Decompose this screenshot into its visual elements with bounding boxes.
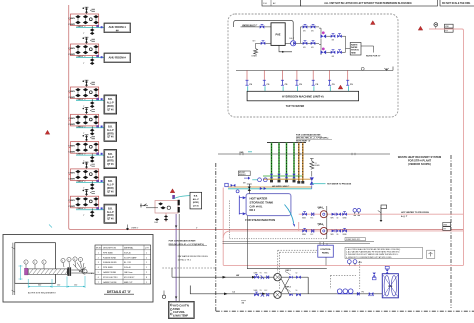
svg-text:2: 2 — [146, 272, 147, 274]
svg-text:GASKET 80NB: GASKET 80NB — [103, 271, 117, 274]
junction dot on header — [126, 228, 128, 230]
main red CHW header — [69, 5, 464, 229]
manifold orange risers — [299, 143, 303, 183]
PHE unit in cloud — [271, 23, 285, 46]
svg-text:PUMP SKID DTL: PUMP SKID DTL — [346, 239, 360, 241]
svg-text:MATERIAL: MATERIAL — [124, 247, 133, 250]
svg-text:DETAILS AT 'X': DETAILS AT 'X' — [107, 290, 131, 294]
svg-text:5: 5 — [98, 272, 99, 274]
condensate line across — [218, 153, 390, 155]
small pumps left of manifold — [244, 177, 267, 182]
manifold isolation valves — [270, 174, 273, 179]
small tag above notes — [345, 238, 365, 242]
top note box A — [262, 0, 301, 6]
svg-text:HOT WATER TO PROCESS: HOT WATER TO PROCESS — [401, 211, 429, 214]
drain leg — [255, 43, 257, 48]
battery limit bottom — [216, 310, 474, 312]
svg-text:WATER INLET 2": WATER INLET 2" — [242, 24, 257, 27]
collect line to tank box — [342, 36, 350, 52]
dm inlet dashed — [162, 267, 216, 269]
svg-text:3: 3 — [98, 262, 99, 264]
svg-text:HW: HW — [236, 275, 239, 277]
svg-text:PIPE 80NB: PIPE 80NB — [103, 267, 113, 269]
flexible hose — [285, 205, 294, 224]
after valves lower — [331, 50, 336, 54]
balloon symbol top right — [434, 23, 438, 29]
svg-text:STORAGE TANK: STORAGE TANK — [250, 201, 275, 205]
svg-text:6: 6 — [74, 259, 75, 261]
tank inlet arrows blue — [236, 190, 246, 215]
svg-text:HW RET: HW RET — [239, 172, 245, 174]
svg-text:CONTROL: CONTROL — [320, 249, 331, 251]
check valves after pumps — [289, 276, 301, 297]
svg-text:HWP-2: HWP-2 — [318, 224, 323, 226]
AHU box 2 — [101, 53, 131, 63]
pink riser at boundary — [222, 188, 224, 239]
signal dashed to dosing pump — [331, 261, 360, 289]
svg-text:80: 80 — [337, 234, 339, 236]
svg-text:NRV: NRV — [331, 217, 334, 219]
svg-text:WASTE HEAT RECOVERY SYSTEM: WASTE HEAT RECOVERY SYSTEM — [398, 155, 441, 159]
svg-text:300: 300 — [38, 284, 41, 286]
phe top valve — [385, 266, 389, 273]
svg-text:5: 5 — [68, 259, 69, 261]
svg-text:HW SUPPLY HDR 2": HW SUPPLY HDR 2" — [272, 186, 289, 188]
svg-text:FLX: FLX — [265, 273, 268, 275]
svg-text:80NB: 80NB — [343, 234, 347, 236]
svg-text:CHWR 6": CHWR 6" — [131, 227, 139, 229]
pink header top right — [429, 29, 464, 265]
hot water pump 2 — [302, 224, 347, 235]
svg-text:DRAIN: DRAIN — [252, 54, 258, 57]
svg-text:2. ALL VALVES FLANGES AND FITT: 2. ALL VALVES FLANGES AND FITTINGS RATED… — [346, 251, 400, 254]
svg-text:7: 7 — [98, 282, 99, 284]
svg-text:TANK: TANK — [351, 51, 357, 54]
continuation note above manifold — [296, 134, 332, 143]
branch rows — [296, 27, 319, 43]
wall box in details — [12, 243, 56, 295]
svg-text:FLANGE 80NB: FLANGE 80NB — [103, 256, 117, 259]
svg-text:8: 8 — [146, 277, 147, 279]
svg-text:80: 80 — [337, 217, 339, 219]
control valve upper — [319, 28, 331, 44]
svg-text:PHE: PHE — [388, 286, 393, 288]
svg-text:FOR STEAM INJECTION: FOR STEAM INJECTION — [245, 218, 275, 222]
pipe assembly — [25, 263, 100, 276]
svg-text:1: 1 — [146, 282, 147, 284]
svg-text:2: 2 — [34, 262, 35, 264]
svg-text:CAF 3mm: CAF 3mm — [124, 271, 133, 274]
svg-text:HW: HW — [444, 224, 447, 226]
svg-text:DM WATER FROM PROCESS: DM WATER FROM PROCESS — [178, 255, 209, 258]
svg-text:YS: YS — [260, 273, 262, 275]
drain spring — [310, 159, 314, 170]
pressure gauges row1 — [353, 209, 361, 216]
circle on collect line — [361, 67, 364, 70]
svg-text:6: 6 — [98, 277, 99, 279]
svg-text:DMP-1: DMP-1 — [286, 270, 291, 272]
svg-text:50: 50 — [296, 273, 298, 275]
balloon callouts — [24, 257, 83, 269]
AHU box 3 — [101, 95, 117, 114]
PHE heat exchanger — [382, 274, 398, 298]
hyd caution tank note box — [169, 301, 195, 318]
svg-text:3. INSULATION FOR HOT WATER LI: 3. INSULATION FOR HOT WATER LINE 50MM TH… — [346, 253, 399, 256]
svg-text:FLX: FLX — [265, 290, 268, 292]
AHU box 5 — [101, 150, 117, 169]
valve station G3 — [68, 80, 104, 108]
warning triangle mid — [170, 189, 175, 193]
y strainer on line — [385, 68, 389, 70]
cyan dimensions — [19, 225, 86, 289]
top note box C — [440, 0, 474, 6]
svg-text:FLANGE BLIND: FLANGE BLIND — [103, 261, 117, 264]
svg-text:FOR STR-# PLANT: FOR STR-# PLANT — [408, 159, 431, 163]
loop return under PHE — [279, 45, 292, 52]
svg-text:(STM) & TK 1: (STM) & TK 1 — [178, 260, 192, 262]
svg-text:4: 4 — [98, 267, 99, 269]
dm water line row1 — [172, 276, 308, 278]
warning triangle near row — [338, 85, 343, 89]
svg-text:QT #6: QT #6 — [193, 206, 200, 208]
continuation note text — [169, 240, 207, 246]
instrument row under loop — [246, 70, 354, 91]
row2 valve set — [254, 292, 269, 296]
level signal dashed — [229, 201, 326, 239]
svg-text:80NB: 80NB — [302, 217, 306, 219]
hw supply header green — [263, 175, 302, 177]
valve before phe — [369, 292, 374, 295]
svg-text:4: 4 — [62, 260, 63, 262]
manifold bottom caps — [270, 180, 304, 184]
svg-text:CHL-P: CHL-P — [289, 38, 295, 40]
AHU box G8 — [190, 192, 202, 209]
AHU box 7 — [101, 204, 117, 223]
svg-text:80NB: 80NB — [302, 234, 306, 236]
row1 valve set — [254, 275, 269, 279]
hydrogen machine box — [247, 91, 359, 108]
svg-text:PHE: PHE — [276, 34, 281, 37]
valve station G2 — [68, 37, 104, 65]
flow sensor flag — [378, 205, 387, 222]
valve station G7 — [68, 189, 104, 217]
svg-text:7: 7 — [80, 259, 81, 261]
svg-text:2: 2 — [146, 257, 147, 259]
svg-text:(VENDOR SCOPE): (VENDOR SCOPE) — [408, 162, 431, 166]
battery limit vertical right — [450, 155, 452, 308]
row valves top — [303, 24, 308, 28]
svg-text:1: 1 — [98, 252, 99, 254]
svg-text:TAP TO WATER: TAP TO WATER — [286, 105, 305, 108]
svg-text:AHU ROOM-#: AHU ROOM-# — [109, 55, 127, 59]
pink drop to bottom loop — [223, 231, 463, 266]
warning triangle left margin — [45, 130, 50, 134]
pump skid supply line pink row1 — [299, 213, 464, 215]
svg-text:M1 #8 BOLT: M1 #8 BOLT — [124, 277, 135, 279]
svg-text:1: 1 — [146, 262, 147, 264]
svg-text:ALL-P: ALL-P — [193, 198, 200, 201]
svg-text:50: 50 — [296, 290, 298, 292]
purple hydrant pipes down — [175, 214, 177, 301]
hot water to process teal — [312, 183, 326, 185]
valve station G6 — [68, 162, 104, 190]
inlet valve — [260, 24, 265, 28]
lower orange stub — [228, 186, 312, 188]
label box left of manifold — [238, 171, 250, 176]
svg-text:STUD ELECTRO: STUD ELECTRO — [103, 277, 118, 279]
svg-text:WASTE: WASTE — [351, 44, 358, 47]
svg-text:HYDROGEN MACHINE (UNIT-#): HYDROGEN MACHINE (UNIT-#) — [282, 95, 324, 99]
svg-text:WATER: WATER — [351, 46, 358, 49]
revision cloud boundary — [228, 14, 398, 117]
svg-text:NOTE FOR 'X': NOTE FOR 'X' — [366, 56, 381, 58]
hot water pump 1 — [302, 207, 347, 218]
tag boxes right pink — [443, 222, 451, 230]
svg-text:B.B.: B.B. — [194, 196, 199, 198]
AHU box 1 — [101, 23, 131, 33]
tag boxes top right — [445, 24, 454, 32]
manifold header cap — [267, 142, 306, 144]
svg-text:NRV: NRV — [331, 234, 334, 236]
svg-text:SR.NO: SR.NO — [96, 248, 103, 250]
control panel — [318, 245, 334, 257]
svg-text:DMP-2: DMP-2 — [286, 287, 291, 289]
svg-text:PIPE 80NB: PIPE 80NB — [103, 252, 113, 254]
details panel frame — [3, 235, 153, 303]
svg-text:PANEL: PANEL — [322, 252, 330, 255]
lg line row2 — [190, 286, 382, 294]
row1 drop to row2 — [307, 277, 309, 294]
svg-text:SO-RF# BARF: SO-RF# BARF — [124, 256, 137, 259]
valve station G1 — [68, 7, 104, 35]
battery limit vertical left — [215, 163, 217, 311]
svg-text:150: 150 — [74, 284, 77, 286]
svg-text:CHW: CHW — [154, 222, 158, 224]
inline dosing pump — [337, 289, 364, 296]
svg-text:DO NOT SCALE THE DRG: DO NOT SCALE THE DRG — [442, 2, 471, 5]
tank outlet pink — [298, 222, 300, 231]
tank top fitting — [243, 182, 252, 193]
valve station G4 — [68, 107, 104, 135]
hw return header orange — [263, 178, 312, 180]
mid valve station G8 — [140, 200, 180, 224]
svg-text:3: 3 — [43, 262, 44, 264]
gauges above bottom loop — [347, 260, 362, 266]
control signal lines — [223, 242, 375, 244]
svg-text:FLX: FLX — [311, 217, 314, 219]
svg-text:MAX CUT: MAX CUT — [124, 281, 133, 284]
svg-text:##: ## — [116, 28, 119, 32]
svg-text:1. ALL PIPES SHALL BE TESTED A: 1. ALL PIPES SHALL BE TESTED AS PER SPEC… — [346, 248, 401, 251]
level circle by note box — [162, 295, 165, 298]
feed pump 2 — [274, 291, 281, 298]
svg-text:A @ T: A @ T — [401, 215, 408, 218]
svg-text:BL # RF: BL # RF — [124, 262, 132, 264]
svg-text:HOT WATER TO PROCESS: HOT WATER TO PROCESS — [327, 183, 352, 186]
piping loop in cloud — [234, 21, 294, 40]
valve station G5 — [68, 135, 104, 163]
feed pump 1 — [274, 274, 281, 281]
svg-text:1: 1 — [25, 262, 26, 264]
lower teal header — [228, 188, 312, 190]
purple instrument mark G8 — [172, 195, 175, 199]
pump skid return line pink row2 — [231, 230, 464, 232]
BOM table — [95, 245, 151, 284]
row valves bottom — [303, 41, 308, 45]
teal lead to box G8 — [174, 196, 190, 199]
note leader — [361, 46, 374, 53]
svg-text:HYD CAUT'N: HYD CAUT'N — [173, 303, 189, 307]
svg-text:HWP-1: HWP-1 — [318, 207, 323, 209]
pump cross connections — [281, 279, 289, 294]
DETAILS AT X caption — [104, 290, 134, 294]
AHU box 4 — [101, 122, 117, 141]
hourglass valve — [310, 171, 314, 189]
warning triangle in cloud — [371, 21, 376, 25]
svg-text:1: 1 — [146, 267, 147, 269]
dm water note text — [178, 255, 209, 262]
svg-text:AS PER SITE REQUIREMENT: AS PER SITE REQUIREMENT — [28, 292, 56, 295]
svg-text:ALL UNIT NOT BE LIFTED OR LEFT: ALL UNIT NOT BE LIFTED OR LEFT WITHOUT T… — [324, 2, 412, 5]
chilled pump — [285, 38, 296, 46]
svg-text:2: 2 — [98, 257, 99, 259]
svg-text:SCH-40: SCH-40 — [124, 267, 131, 269]
waste water tank box — [350, 43, 361, 56]
warning triangle right of cloud — [418, 26, 423, 30]
svg-text:80NB: 80NB — [343, 217, 347, 219]
svg-text:YS: YS — [260, 290, 262, 292]
svg-text:DESCRIPTION: DESCRIPTION — [103, 248, 117, 250]
svg-text:AHU ROOM-1: AHU ROOM-1 — [109, 25, 127, 29]
svg-text:FLX: FLX — [311, 234, 314, 236]
bottom collect line — [236, 67, 393, 71]
hw supply marks — [260, 186, 290, 190]
svg-text:W.I: W.I — [253, 41, 256, 43]
svg-text:(8F/R): (8F/R) — [193, 202, 199, 204]
control valve lower — [321, 44, 332, 55]
manifold green risers — [272, 143, 295, 180]
svg-text:SCH-40: SCH-40 — [124, 252, 131, 254]
AHU box 6 — [101, 177, 117, 196]
signal dashed to feed pumps — [278, 250, 318, 290]
hot water storage tank — [246, 194, 291, 216]
svg-text:CAP 200L: CAP 200L — [173, 310, 185, 314]
svg-text:4. VENDOR TO CONFIRM PUMP DUTY: 4. VENDOR TO CONFIRM PUMP DUTY AT SITE C… — [346, 256, 392, 259]
svg-text:HW: HW — [445, 26, 448, 28]
waste heat recovery title — [398, 155, 441, 166]
svg-text:1: 1 — [146, 252, 147, 254]
svg-text:FOR CONTINUATION REF.: FOR CONTINUATION REF. — [169, 240, 197, 243]
svg-text:MX 2: MX 2 — [250, 209, 256, 212]
notes block right — [345, 248, 435, 259]
hot water to process text right — [401, 211, 429, 218]
svg-text:GASKET HOSE: GASKET HOSE — [103, 281, 117, 284]
phe inlet valve left — [372, 273, 376, 280]
svg-text:TANK: TANK — [173, 307, 180, 311]
svg-text:& MAX TEMP: & MAX TEMP — [173, 315, 188, 318]
top note box B — [301, 0, 438, 6]
after valves upper — [331, 34, 336, 38]
svg-text:150: 150 — [57, 284, 60, 286]
